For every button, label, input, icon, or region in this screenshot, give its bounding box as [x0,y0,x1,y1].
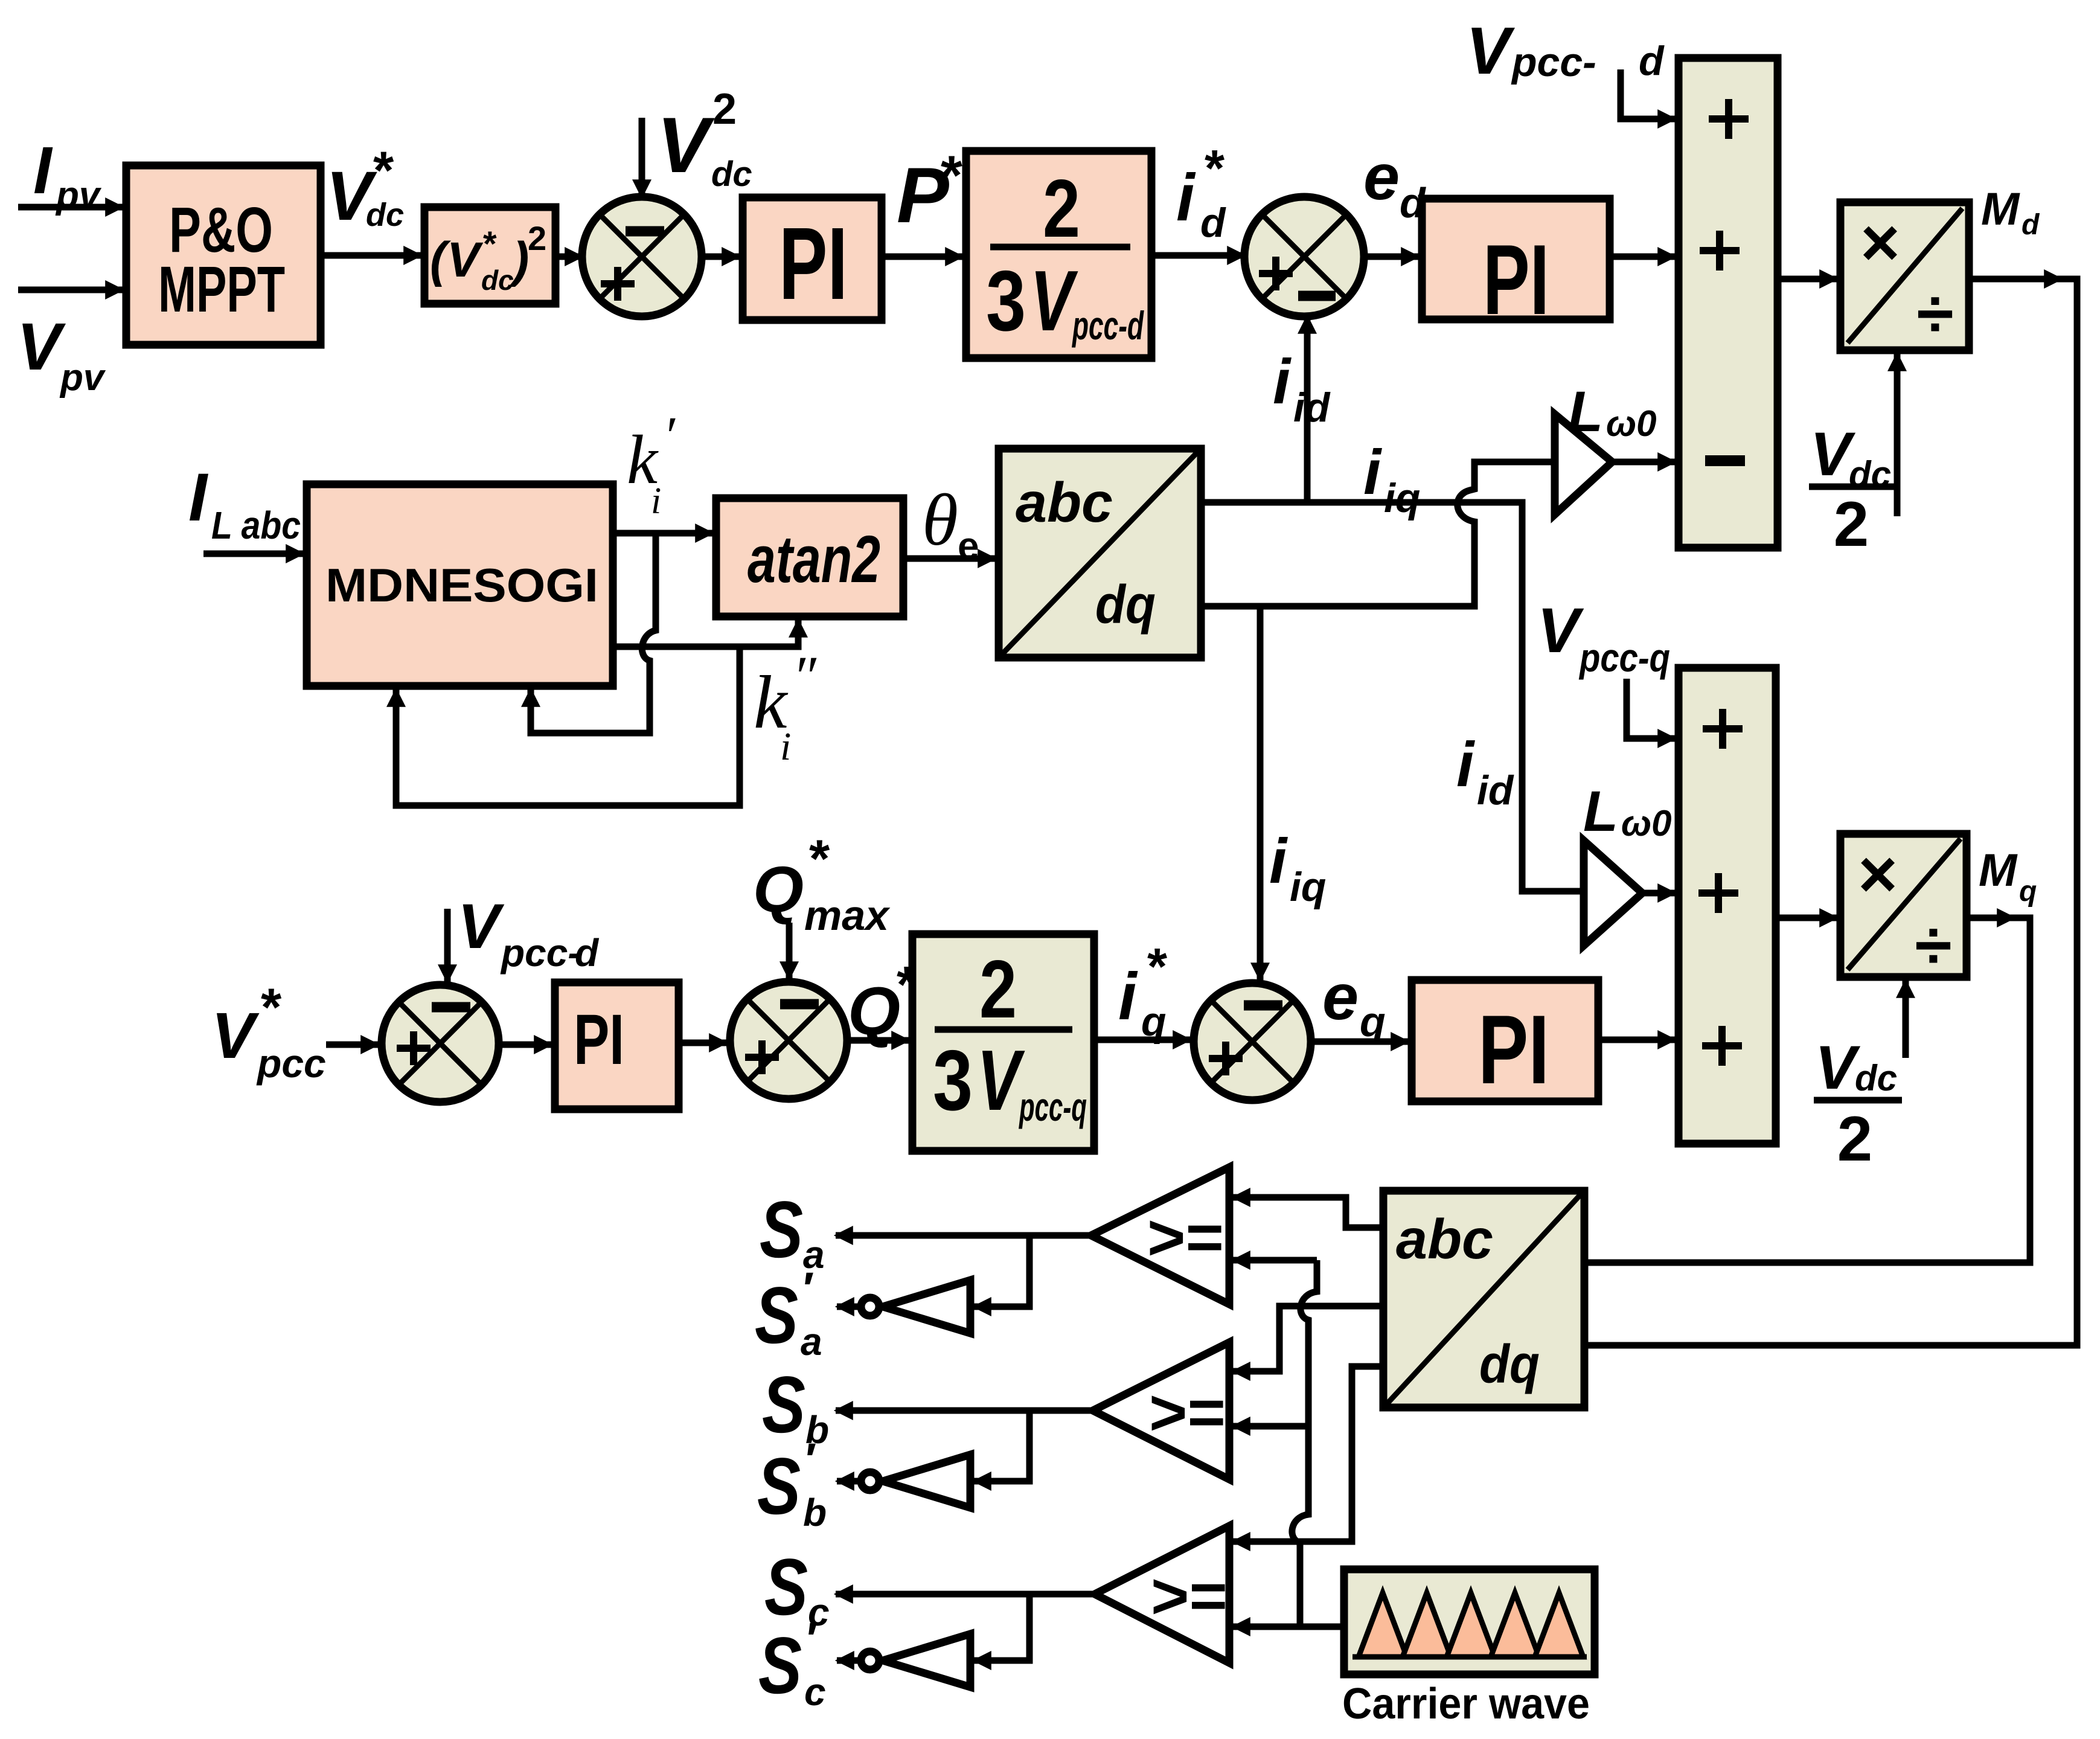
svg-text:i: i [1363,437,1382,508]
svg-text:×: × [1860,205,1900,280]
svg-text:pcc-q: pcc-q [1019,1084,1087,1129]
svg-text:Carrier wave: Carrier wave [1342,1680,1590,1728]
node iid label lower [1456,729,1514,813]
svg-text:>=: >= [1146,1200,1223,1273]
wire iiq branch down to sum5 [1257,606,1264,980]
block MDNESOGI [307,484,613,686]
svg-text:S: S [760,1185,803,1275]
svg-text:÷: ÷ [1915,908,1951,983]
comparator A [1091,1167,1229,1304]
wire 2/3Vpcc-q to sum5 [1094,1037,1190,1043]
wire ma from abc/dq to comparator A [1233,1197,1383,1228]
svg-text:dc: dc [1855,1058,1897,1098]
svg-text:d: d [1639,38,1665,84]
gain Lw0 triangle 2 [1583,780,1671,946]
wire sum1 to PI1 [702,254,739,260]
node Vdc/2 label 2 [1814,1033,1902,1174]
svg-text:atan2: atan2 [747,522,880,597]
node ki' label [627,406,676,522]
svg-text:*: * [941,145,962,207]
summing junction S4 [730,982,847,1099]
wire sum4 to 2/3Vpcc-q [847,1037,909,1044]
wire Vdc/2 up into muldiv1 [1894,354,1901,516]
svg-text:i: i [1118,959,1138,1034]
svg-text:*: * [1205,140,1224,197]
svg-text:i: i [780,725,791,769]
node Sb' label [757,1434,827,1534]
svg-text:L: L [1568,380,1603,444]
node ILabc label [188,460,301,547]
wire Vdc^2 down into sum1 [639,118,645,197]
node Vpv label [17,310,106,399]
svg-text:′: ′ [803,1263,814,1315]
wire sumbar1 to muldiv1 [1778,276,1837,283]
svg-text:V: V [1466,14,1516,88]
svg-text:pcc-: pcc- [1511,39,1596,85]
node Vdc* label [326,140,404,235]
block PI3 [555,982,679,1109]
svg-text:iq: iq [1290,864,1326,910]
svg-text:q: q [2019,876,2037,908]
block atan2 [716,498,903,616]
wire Sb output [836,1408,1093,1414]
svg-text:V: V [447,232,484,287]
svg-text:V: V [977,1033,1025,1129]
block abc/dq middle [999,449,1201,658]
block abc/dq bottom [1383,1191,1584,1408]
svg-text:e: e [1322,960,1359,1033]
node Vdc/2 label 1 [1809,420,1900,560]
block multiply-divide 1 [1840,202,1969,351]
svg-text:′: ′ [807,1613,818,1665]
block multiply-divide 2 [1840,834,1967,983]
node iiq label lower [1269,826,1326,910]
wire PI1 to 2/3Vpcc-d [882,254,962,260]
svg-text:d: d [2022,209,2040,241]
wire atan2 to abcdq-mid [903,556,995,562]
svg-text:′: ′ [663,406,676,466]
svg-text:Q: Q [753,853,804,926]
svg-text:pcc: pcc [256,1041,326,1086]
svg-text:S: S [764,1543,808,1632]
svg-text:iq: iq [1384,475,1420,521]
node Vpcc-d top label [1466,14,1665,88]
svg-text:>=: >= [1148,1376,1224,1449]
summing junction S3 [382,985,499,1102]
svg-text:*: * [483,225,497,264]
comparator C [1095,1526,1229,1663]
svg-text:max: max [804,892,891,939]
svg-text:ω0: ω0 [1606,403,1656,444]
wire Md output to right and down to abc/dq [1969,276,2061,283]
svg-text:pcc-q: pcc-q [1578,635,1670,680]
wire Sa branch to NOT A [974,1235,1029,1307]
wire P&O to Vdc^2 block [321,252,421,259]
node iq* label [1118,938,1167,1045]
svg-text:PI: PI [1478,995,1549,1104]
svg-text:PI: PI [1483,224,1549,335]
wire Vpcc-d into sumbar1 [1621,69,1675,119]
svg-text:PI: PI [779,207,848,321]
node iid label into sum2 [1273,347,1331,431]
svg-text:2: 2 [1837,1104,1872,1174]
svg-text:i: i [1273,347,1292,417]
svg-text:M: M [1981,184,2020,235]
svg-text:S: S [757,1442,801,1531]
wire Sa output [836,1232,1091,1239]
block carrier wave [1344,1569,1595,1674]
svg-text:pcc-d: pcc-d [1072,303,1144,348]
block PI2 [1422,199,1610,335]
wire sum2 to PI2 [1364,254,1418,260]
node Sc' label [758,1613,826,1714]
wire ki'' feedback into MDNESOGI [396,647,740,805]
svg-text:d: d [1200,200,1226,246]
svg-text:V: V [1537,595,1584,666]
node Sa' label [755,1263,822,1363]
svg-text:MDNESOGI: MDNESOGI [325,559,598,612]
svg-text:q: q [1360,998,1386,1045]
wire PI4 to sumbar2 [1598,1037,1675,1043]
node Q* label [848,956,917,1049]
wire Sc output [836,1591,1095,1598]
svg-text:I: I [33,133,53,208]
svg-text:L abc: L abc [211,504,301,547]
wire ki'' to atan2 bottom [613,620,798,647]
svg-text:>=: >= [1150,1559,1226,1632]
node theta-e label [922,479,979,568]
svg-text:V: V [211,999,260,1072]
svg-text:2: 2 [528,219,546,257]
svg-text:V: V [1030,253,1078,349]
wire Vpv input [18,287,123,293]
node Vpcc-q label [1537,595,1670,680]
svg-text:2: 2 [979,943,1017,1035]
svg-text:e: e [1363,140,1400,213]
summing junction S1 [582,197,702,316]
NOT gate B [861,1455,970,1508]
svg-text:V: V [1815,1033,1861,1102]
wire iiq from abcdq-mid bottom output to Lw0-1 (hop over iid line) [1201,462,1556,606]
node eq label [1322,960,1386,1045]
svg-text:i: i [1269,826,1288,897]
svg-text:id: id [1293,385,1331,431]
node Md label [1981,184,2040,241]
block PI1 [743,197,882,321]
node Vpcc-d lower label [458,891,600,975]
sum bar 1 [1679,58,1778,548]
svg-text:d: d [575,931,600,975]
node Qmax* label [753,828,891,939]
comparator B [1093,1342,1229,1479]
node Sb label [762,1360,829,1452]
node id* label [1176,140,1226,246]
svg-text:i: i [1456,729,1475,800]
gain Lw0 triangle 1 [1555,380,1656,514]
svg-text:2: 2 [712,85,737,133]
svg-text:V: V [17,310,66,384]
node iiq label [1363,437,1420,521]
svg-text:b: b [803,1491,827,1534]
wire mb from abc/dq to comparator B [1233,1306,1383,1371]
svg-text:″: ″ [792,644,817,708]
svg-text:abc: abc [1016,471,1113,534]
svg-text:′: ′ [805,1434,816,1485]
svg-text:L: L [1583,780,1618,844]
svg-text:PI: PI [574,1000,624,1080]
wire sum3 to PI3 [499,1042,551,1048]
svg-text:i: i [651,481,661,522]
svg-text:c: c [804,1670,826,1714]
svg-text:θ: θ [922,479,958,561]
wire ILabc input [203,551,303,557]
wire Qmax* down into sum4 [786,923,793,979]
svg-text:I: I [188,460,209,535]
svg-text:i: i [1176,161,1196,235]
block P&O MPPT [126,165,321,345]
block PI4 [1412,980,1598,1104]
wire Sb' output [837,1478,860,1485]
wire Vpcc-d down into sum3 [444,909,451,982]
wire iid up into sum2 [1304,316,1311,502]
node Vdc^2 input label [657,85,752,194]
wire carrier bus up to comparators A and B (hops over mb and mc) [1233,1257,1317,1264]
wire ki' to atan2 [613,530,712,537]
svg-text:*: * [261,977,282,1037]
wire Sa' output [837,1304,860,1310]
svg-text:dc: dc [711,155,752,194]
svg-text:MPPT: MPPT [158,252,285,325]
wire mc from abc/dq to comparator C [1233,1366,1383,1542]
svg-text:ω0: ω0 [1621,803,1671,844]
node Ipv label [33,133,102,216]
node Vpcc* label [211,977,326,1086]
wire Lw0-2 to sumbar2 [1642,890,1675,897]
svg-text:×: × [1858,836,1897,912]
svg-text:2: 2 [1834,489,1869,560]
block 2/(3Vpcc-d) [966,151,1151,358]
svg-text:M: M [1979,845,2018,896]
svg-text:÷: ÷ [1916,276,1953,351]
svg-text:S: S [762,1360,805,1450]
svg-text:S: S [755,1271,798,1360]
sum bar 2 [1679,668,1776,1144]
wire iid from abcdq-mid top output to Lw0-2 via right vertical [1201,502,1583,891]
svg-text:id: id [1477,767,1514,813]
svg-text:V: V [458,891,505,962]
svg-text:3: 3 [986,253,1026,349]
svg-text:dc: dc [366,197,404,233]
wire Vpcc* to sum3 [326,1042,378,1048]
svg-text:S: S [758,1621,802,1711]
svg-text:*: * [373,140,394,200]
wire Sc branch to NOT C [974,1594,1029,1661]
svg-text:a: a [801,1320,822,1363]
node Sa label [760,1185,825,1276]
wire sum5 to PI4 [1311,1039,1408,1045]
wire Ipv input [18,204,123,211]
node ki'' label [754,644,817,769]
summing junction S2 [1244,197,1364,316]
wire PI3 to sum4 [679,1040,726,1046]
svg-text:2: 2 [1043,162,1080,254]
wire sumbar2 to muldiv2 [1776,915,1837,921]
svg-text:dq: dq [1479,1334,1540,1395]
svg-text:pv: pv [59,357,106,399]
block 2/(3Vpcc-q) [912,934,1094,1151]
svg-text:abc: abc [1396,1208,1493,1270]
wire Sb branch to NOT B [974,1411,1029,1481]
svg-text:dc: dc [481,264,514,296]
wire carrier to comparator C [1233,1624,1344,1630]
wire ki' feedback into MDNESOGI [531,533,656,733]
wire Lw0-1 to sumbar1 [1612,459,1675,466]
node Mq label [1979,845,2037,908]
svg-text:3: 3 [933,1033,973,1129]
NOT gate C [861,1634,970,1687]
block (Vdc*)^2 [424,207,555,304]
wire Sc' output [837,1657,860,1664]
wire Vpcc-q into sumbar2 [1627,679,1675,738]
wire Vdc/2 up into muldiv2 [1903,981,1909,1058]
NOT gate A [861,1280,970,1333]
svg-text:*: * [809,828,830,888]
node P* label [897,145,962,239]
node ed label [1363,140,1426,226]
svg-text:pcc-: pcc- [500,931,581,975]
svg-text:*: * [1147,938,1167,996]
wire Vdc^2 block to sum1 [555,254,582,260]
summing junction S5 [1194,983,1311,1100]
wire comparator B lower input [1233,1423,1308,1430]
wire 2/3Vpcc-d to sum2 [1151,252,1244,259]
svg-text:dq: dq [1095,575,1156,635]
wire PI2 to sumbar1 [1610,254,1675,260]
node Sc label [764,1543,830,1634]
wire Mq output to right and down to abc/dq [1967,915,2014,921]
svg-text:V: V [657,101,715,189]
